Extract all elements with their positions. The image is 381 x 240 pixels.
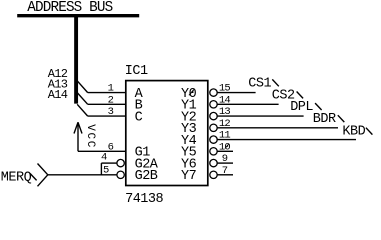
- inverting bubble Y4: [210, 136, 217, 143]
- wire A14 to pin 3: [88, 115, 126, 117]
- svg-text:ADDRESS BUS: ADDRESS BUS: [27, 0, 112, 16]
- svg-text:13: 13: [219, 106, 231, 118]
- inverting bubble Y6: [210, 159, 217, 166]
- svg-text:CS1: CS1: [248, 76, 271, 91]
- wire Y1 to CS2: [217, 103, 278, 105]
- svg-text:12: 12: [219, 118, 231, 130]
- stub wire pin 7: [217, 174, 233, 176]
- svg-text:C: C: [135, 110, 143, 125]
- svg-text:3: 3: [108, 106, 114, 118]
- wire Y4 to KBD: [217, 139, 356, 141]
- svg-text:11: 11: [219, 130, 231, 142]
- svg-text:5: 5: [103, 164, 109, 176]
- svg-text:2: 2: [108, 94, 114, 106]
- wire Y2 to DPL: [217, 115, 303, 117]
- active-low tick on CS2: [297, 92, 304, 99]
- active-low tick on KBD: [366, 128, 373, 135]
- svg-text:10: 10: [219, 141, 231, 153]
- bus horizontal segment: [17, 14, 139, 17]
- svg-text:DPL: DPL: [290, 100, 313, 115]
- svg-text:A14: A14: [48, 88, 68, 102]
- inverting bubble Y7: [210, 171, 217, 178]
- bus tap A14 (diagonal): [77, 104, 88, 116]
- svg-text:MERQ: MERQ: [1, 170, 32, 185]
- inverting bubble Y1: [210, 101, 217, 108]
- active-low tick on BDR: [338, 115, 345, 122]
- wire Y3 to BDR: [217, 127, 338, 129]
- svg-text:1: 1: [108, 83, 114, 95]
- inverting bubble Y5: [210, 148, 217, 155]
- inverting bubble G2B: [117, 171, 124, 178]
- op IC1 74138 decoder body: [126, 81, 208, 186]
- active-low tick on CS1: [272, 79, 279, 86]
- inverting bubble Y2: [210, 112, 217, 119]
- bus tap A13 (diagonal): [77, 93, 88, 105]
- svg-text:Y7: Y7: [181, 169, 197, 184]
- svg-text:IC1: IC1: [125, 64, 148, 79]
- svg-text:6: 6: [108, 141, 114, 153]
- inverting bubble Y0: [210, 89, 217, 96]
- svg-text:14: 14: [219, 94, 231, 106]
- svg-text:KBD: KBD: [342, 125, 365, 140]
- bus vertical segment: [74, 14, 78, 104]
- wire A13 to pin 2: [88, 103, 126, 105]
- inverting bubble Y3: [210, 124, 217, 131]
- svg-text:7: 7: [222, 165, 228, 177]
- bus tap A12 (diagonal): [77, 81, 88, 93]
- wire branch to pin 4: [101, 163, 117, 175]
- svg-text:G2B: G2B: [135, 169, 158, 184]
- svg-text:74138: 74138: [125, 192, 163, 206]
- input port chevron MERQ: [38, 164, 48, 187]
- active-low tick on MERQ: [30, 174, 36, 181]
- svg-text:VCC: VCC: [84, 124, 96, 149]
- wire MERQ to pin 5: [48, 174, 117, 176]
- svg-text:15: 15: [219, 83, 231, 95]
- wire Y0 to CS1: [217, 92, 255, 94]
- wire VCC to pin 6: [78, 150, 126, 152]
- stub wire pin 10: [217, 150, 233, 152]
- inverting bubble G2A: [117, 159, 124, 166]
- svg-text:9: 9: [222, 153, 228, 165]
- svg-text:4: 4: [101, 152, 107, 164]
- wire A12 to pin 1: [88, 92, 126, 94]
- active-low tick on DPL: [315, 103, 322, 110]
- stub wire pin 9: [217, 162, 233, 164]
- VCC power arrow: [74, 122, 82, 151]
- svg-text:BDR: BDR: [313, 112, 336, 127]
